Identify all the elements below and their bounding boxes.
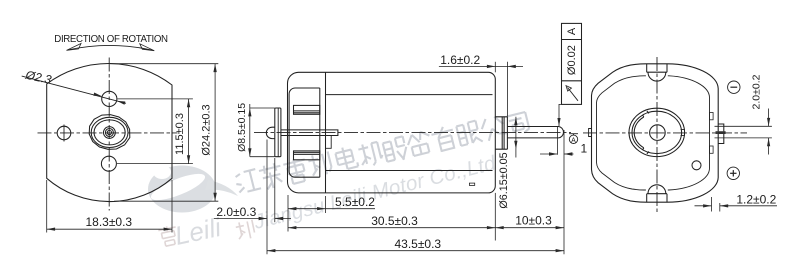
can bottom flat line	[326, 170, 493, 172]
svg-text:1.2±0.2: 1.2±0.2	[736, 192, 776, 206]
rotation arrow left head	[67, 44, 82, 51]
top crimp tab	[647, 64, 667, 81]
dimension dia8.5 extension lines	[250, 107, 275, 109]
feature control frame leader	[559, 104, 562, 126]
terminal slot lines / extension lines for 2.0	[715, 125, 772, 127]
bottom mounting hole	[101, 156, 116, 171]
dimension 1 line	[540, 153, 557, 155]
rotation curved arrow	[69, 45, 153, 50]
dimension 43.5 extension line right	[563, 130, 565, 254]
top brush tab	[294, 105, 320, 114]
watermark char ji	[357, 140, 384, 168]
rear cap inner contour	[597, 76, 710, 190]
output shaft	[507, 127, 563, 138]
svg-text:Ø0.02: Ø0.02	[566, 45, 578, 75]
svg-text:10±0.3: 10±0.3	[515, 214, 552, 228]
dimension 18.3 line	[47, 228, 172, 230]
watermark char su	[258, 162, 285, 191]
svg-text:DIRECTION OF ROTATION: DIRECTION OF ROTATION	[54, 34, 168, 45]
watermark char li	[307, 151, 333, 177]
dimension 2.0 line	[768, 109, 770, 127]
dimension 1 extension lines	[556, 127, 558, 155]
dimension 30.5 line	[288, 227, 495, 229]
dimension dia8.5 line	[249, 104, 251, 157]
end cap outline	[288, 72, 326, 193]
can top flat line	[326, 94, 493, 96]
watermark char gu	[382, 136, 409, 164]
dia 2.3 leader line	[22, 76, 117, 101]
SIDE VIEW	[214, 23, 588, 254]
dimension 11.5 extension lines	[118, 98, 193, 100]
minus terminal symbol	[728, 81, 740, 93]
side view horizontal centerline	[254, 132, 571, 134]
svg-text:5.5±0.2: 5.5±0.2	[335, 195, 375, 209]
rear cap outer outline	[592, 64, 719, 202]
svg-text:A: A	[571, 137, 576, 144]
bearing retainer arc	[634, 111, 649, 154]
rotation arrow right head	[140, 44, 155, 51]
svg-text:30.5±0.3: 30.5±0.3	[371, 214, 418, 228]
watermark char xian	[456, 120, 483, 147]
plus terminal symbol	[727, 167, 739, 179]
runout symbol arrow	[568, 88, 579, 101]
dimension 1.6 extension lines	[494, 62, 496, 73]
watermark script signature leili	[158, 212, 256, 251]
watermark char lei	[283, 157, 310, 186]
rear shaft hole	[650, 125, 666, 141]
end cap inner step	[289, 88, 320, 177]
svg-text:A: A	[566, 27, 578, 35]
watermark char dian	[334, 145, 358, 171]
dimension 18.3 extension lines	[46, 180, 48, 233]
dia 2.3 opposite arrowhead	[117, 101, 126, 105]
motor can outline	[326, 72, 496, 193]
dimension dia6.15 line	[515, 117, 517, 158]
dia 2.3 leader arrowhead	[93, 93, 102, 97]
rear shaft stub	[266, 127, 274, 138]
bottom brush tab	[294, 151, 320, 160]
dimension 10 line	[495, 227, 564, 229]
vent hole	[692, 161, 701, 170]
left mounting hole	[57, 126, 71, 140]
watermark char fen	[406, 130, 434, 157]
front view horizontal centerline	[38, 132, 178, 134]
svg-text:18.3±0.3: 18.3±0.3	[85, 215, 132, 229]
front view body outline	[47, 64, 172, 202]
bearing hub knurled polygon	[89, 115, 130, 150]
dimension 1.2 line	[695, 205, 712, 207]
REAR VIEW	[583, 57, 777, 213]
end cap seam line	[325, 72, 327, 193]
svg-text:Ø8.5±0.15: Ø8.5±0.15	[236, 103, 248, 152]
front view vertical centerline	[108, 58, 110, 211]
FRONT VIEW	[22, 34, 219, 233]
svg-text:Ø6.15±0.05: Ø6.15±0.05	[498, 152, 510, 208]
bearing hub inner ellipse	[94, 120, 125, 145]
dimension 11.5 line	[188, 99, 190, 164]
dimension dia24.2 extension lines	[110, 63, 218, 65]
dimension 2.0 extension lines	[266, 140, 268, 255]
rear bearing boss outer ellipse	[629, 108, 685, 156]
top mounting hole	[102, 91, 117, 106]
dimension 1.2 extension lines	[711, 197, 713, 212]
dia 2.3 opposite arrow tail	[117, 101, 126, 103]
left hole vertical centerline	[63, 125, 65, 142]
svg-text:11.5±0.3: 11.5±0.3	[174, 113, 186, 155]
watermark char you	[430, 125, 457, 154]
watermark char si	[507, 112, 530, 136]
dimension 2.0 line	[214, 218, 267, 220]
svg-text:1.6±0.2: 1.6±0.2	[440, 53, 480, 67]
watermark logo circle	[148, 165, 238, 213]
dimension 1.6 line	[439, 65, 523, 67]
terminal block bump	[718, 124, 724, 144]
watermark char jiang	[234, 169, 261, 194]
rear bearing boss dia8.5	[275, 108, 281, 157]
svg-text:43.5±0.3: 43.5±0.3	[394, 237, 441, 251]
front bearing boss on end plate	[495, 117, 507, 149]
can vent notch	[469, 183, 474, 185]
left flat gate notch	[589, 129, 592, 137]
dimension dia24.2 line	[214, 64, 216, 202]
inner wall nub bottom right	[710, 146, 714, 153]
watermark chinese company name row (vector pseudo-glyphs)	[234, 112, 530, 194]
svg-text:Ø24.2±0.3: Ø24.2±0.3	[200, 104, 212, 155]
rear bearing boss inner ellipse	[632, 111, 682, 153]
dimension 5.5 line	[288, 208, 375, 210]
svg-text:2.0±0.2: 2.0±0.2	[751, 74, 763, 109]
dimension 43.5 line	[267, 250, 564, 252]
inner wall nub top right	[710, 113, 714, 120]
terminal tab	[716, 131, 726, 134]
tab masks	[646, 65, 668, 81]
dimension 30.5 extension line	[287, 213, 289, 232]
internal step below shaft bar	[326, 136, 332, 149]
rear view vertical centerline	[656, 57, 658, 213]
WATERMARK	[148, 112, 530, 251]
bearing retainer right notch	[681, 130, 685, 136]
dimension 5.5 extension lines	[287, 195, 289, 213]
shaft hole circle	[107, 130, 111, 134]
bottom crimp tab	[647, 185, 667, 202]
internal shaft bar	[281, 130, 338, 136]
bearing outer circle	[104, 127, 116, 139]
svg-text:1: 1	[581, 142, 588, 156]
bearing hub outer ellipse	[91, 117, 128, 147]
datum A symbol	[569, 133, 578, 135]
watermark char gong	[480, 115, 508, 142]
bearing inner circle	[105, 129, 113, 137]
runout feature control frame	[562, 23, 582, 104]
svg-text:2.0±0.3: 2.0±0.3	[216, 205, 256, 219]
rear view horizontal centerline	[583, 132, 747, 134]
